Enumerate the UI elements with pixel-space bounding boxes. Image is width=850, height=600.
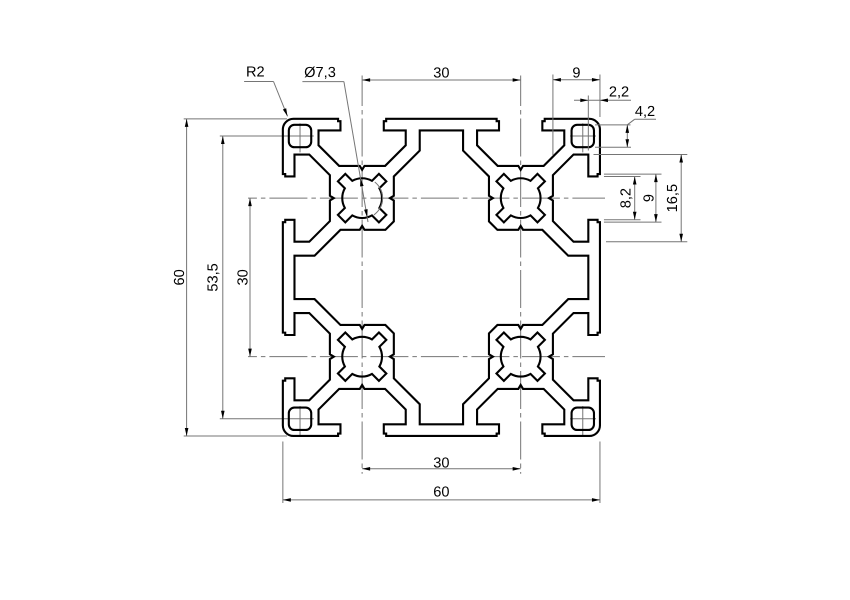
svg-text:Ø7,3: Ø7,3	[304, 65, 336, 81]
svg-text:16,5: 16,5	[665, 184, 681, 212]
core hole O7.3 top-right	[496, 174, 544, 222]
core hole O7.3 bottom-right	[496, 332, 544, 380]
centreline vertical x=+15mm slot row	[520, 76, 522, 474]
svg-text:4,2: 4,2	[635, 104, 655, 120]
centreline horizontal y=+15mm slot row	[248, 356, 605, 358]
core hole O7.3 bottom-left	[338, 332, 386, 380]
svg-text:30: 30	[433, 66, 449, 82]
corner screw hole top-right	[572, 125, 594, 147]
centreline vertical x=-15mm slot row	[361, 76, 363, 474]
corner hole centrelines bottom-left	[220, 418, 314, 420]
svg-text:60: 60	[172, 269, 188, 285]
centreline horizontal y=-15mm slot row	[248, 197, 605, 199]
dimension 9 top right corner block	[553, 79, 600, 81]
svg-text:9: 9	[572, 65, 580, 81]
leader O7,3 core hole diameter	[302, 81, 344, 83]
corner screw hole bottom-right	[572, 408, 594, 430]
leader R2 corner radius	[244, 81, 273, 83]
dimension 16,5 slot cavity right	[594, 154, 688, 156]
dimension 30 left slot centres	[249, 198, 251, 357]
dimension 2,2 corner wall thickness	[574, 99, 631, 101]
dimension 30 bottom	[362, 468, 521, 470]
svg-text:R2: R2	[246, 64, 265, 80]
dimension 60 bottom	[282, 442, 284, 504]
central chamber cavity	[294, 130, 588, 424]
svg-text:30: 30	[433, 455, 449, 471]
corner hole centrelines top-right	[570, 135, 596, 137]
svg-text:8,2: 8,2	[619, 188, 635, 208]
corner screw hole top-left	[289, 125, 311, 147]
corner hole centrelines top-left	[220, 135, 314, 137]
svg-text:30: 30	[236, 269, 252, 285]
thread arc on top-left core hole	[374, 182, 383, 215]
corner hole centrelines bottom-right	[570, 418, 596, 420]
dimension 4,2 corner hole	[595, 124, 631, 126]
svg-text:2,2: 2,2	[609, 84, 629, 100]
svg-text:53,5: 53,5	[205, 263, 221, 291]
svg-text:60: 60	[433, 485, 449, 501]
svg-text:9: 9	[641, 194, 657, 202]
corner screw hole bottom-left	[289, 408, 311, 430]
dimension 8,2 slot opening right	[604, 175, 641, 177]
dimension 30 top	[362, 79, 521, 81]
dimension 60 left	[184, 118, 287, 120]
dimension 9 slot step right	[604, 173, 662, 175]
dimension 53,5 left corner hole centres	[222, 136, 224, 419]
profile outer contour with T-slots	[283, 119, 600, 436]
core hole O7.3 top-left	[338, 174, 386, 222]
